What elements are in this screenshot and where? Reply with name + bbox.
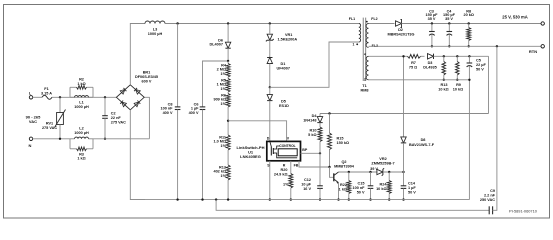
varistor RV1 xyxy=(59,97,61,112)
capacitor C12 xyxy=(319,153,321,185)
inductor L1 with resistor R2 parallel block xyxy=(69,87,71,97)
wire V pin line xyxy=(228,121,287,142)
node R22 top xyxy=(348,171,350,173)
resistor R9 xyxy=(456,55,458,57)
node R15 top xyxy=(328,112,330,114)
svg-text:50 V: 50 V xyxy=(408,191,416,195)
transformer T1 secondary winding xyxy=(366,24,368,48)
capacitor C4 xyxy=(448,22,450,24)
capacitor C6 xyxy=(200,106,206,108)
svg-text:R9: R9 xyxy=(456,83,461,87)
node D8 C14 junction xyxy=(402,171,404,173)
diode D2 xyxy=(396,21,402,26)
transistor Q2 xyxy=(333,173,335,181)
resistor R5 xyxy=(227,77,229,79)
node F1-RV1 junction xyxy=(59,96,61,98)
svg-text:PI-5891-060710: PI-5891-060710 xyxy=(509,209,538,214)
wire R11 to R12 xyxy=(227,150,229,165)
capacitor C5 xyxy=(468,55,470,57)
svg-text:R6: R6 xyxy=(221,93,226,97)
svg-text:VR1: VR1 xyxy=(285,33,292,37)
svg-text:R3: R3 xyxy=(79,152,84,156)
svg-text:275 VAC: 275 VAC xyxy=(111,120,126,124)
svg-text:C5: C5 xyxy=(476,58,481,62)
svg-text:1%: 1% xyxy=(221,174,227,178)
svg-text:22 nF: 22 nF xyxy=(111,116,122,120)
svg-text:BP: BP xyxy=(302,148,308,152)
transformer T1 bias winding xyxy=(366,56,368,80)
svg-text:C8: C8 xyxy=(168,102,173,106)
svg-text:1000 µH: 1000 µH xyxy=(74,105,89,109)
wire fuse to bridge xyxy=(52,96,116,98)
resistor R15 xyxy=(329,114,331,134)
svg-text:400 V: 400 V xyxy=(163,111,173,115)
svg-text:10 kΩ: 10 kΩ xyxy=(438,88,448,92)
svg-text:402 kΩ: 402 kΩ xyxy=(213,170,226,174)
node C3 top xyxy=(431,22,433,24)
capacitor C9 xyxy=(488,206,490,214)
resistor R8 xyxy=(468,22,470,24)
svg-text:909 kΩ: 909 kΩ xyxy=(213,98,226,102)
transformer T1 primary winding xyxy=(359,24,361,43)
svg-text:D: D xyxy=(267,136,270,140)
terminal N xyxy=(29,137,32,140)
capacitor C3 xyxy=(431,24,433,32)
svg-text:UF4007: UF4007 xyxy=(277,67,291,71)
bridge rectifier BR1 xyxy=(116,85,144,110)
svg-text:10 kΩ: 10 kΩ xyxy=(453,88,463,92)
svg-text:20 kΩ: 20 kΩ xyxy=(463,13,473,17)
svg-text:22 µF: 22 µF xyxy=(476,63,486,67)
node RTN down junction xyxy=(496,45,498,47)
fuse F1 xyxy=(42,95,52,99)
node Y-cap tap xyxy=(215,198,217,200)
wire output rail xyxy=(402,23,542,25)
svg-text:1 kΩ: 1 kΩ xyxy=(339,188,347,192)
svg-text:D1: D1 xyxy=(281,62,286,66)
svg-text:1%: 1% xyxy=(283,182,289,186)
svg-text:4: 4 xyxy=(364,52,366,56)
wire FB node to Q2 base xyxy=(330,167,334,177)
wire bridge plus up to top rail xyxy=(130,24,145,85)
svg-text:600 V: 600 V xyxy=(142,79,152,83)
svg-text:1 µF: 1 µF xyxy=(408,186,416,190)
terminal L xyxy=(29,96,32,99)
svg-text:R: R xyxy=(283,164,286,168)
wire C6 branch xyxy=(203,61,229,107)
wire bias right corner down xyxy=(488,56,490,113)
svg-text:150 kΩ: 150 kΩ xyxy=(337,141,350,145)
svg-text:BR1: BR1 xyxy=(143,70,151,74)
wire top rail xyxy=(165,23,359,25)
wire bias supply line xyxy=(320,113,489,115)
wire BP pin xyxy=(301,152,321,154)
svg-text:100 nF: 100 nF xyxy=(352,186,365,190)
svg-text:DF06S-E3/45: DF06S-E3/45 xyxy=(135,75,158,79)
svg-text:R12: R12 xyxy=(219,165,226,169)
svg-text:C9: C9 xyxy=(490,189,495,193)
svg-text:50 V: 50 V xyxy=(357,191,365,195)
wire Y capacitor line xyxy=(216,200,489,211)
svg-text:50 V: 50 V xyxy=(476,67,484,71)
wire bias winding return rail xyxy=(369,79,470,81)
svg-text:1 kΩ: 1 kΩ xyxy=(77,157,85,161)
resistor R7 xyxy=(408,54,421,58)
svg-text:ZMM5259B-7: ZMM5259B-7 xyxy=(371,161,394,165)
svg-text:1%: 1% xyxy=(221,102,227,106)
svg-text:25 V, 530 mA: 25 V, 530 mA xyxy=(502,15,527,20)
svg-text:1.0 MΩ: 1.0 MΩ xyxy=(213,140,226,144)
diode D5 xyxy=(269,87,271,95)
capacitor C2 xyxy=(104,97,106,115)
svg-text:R11: R11 xyxy=(219,135,226,139)
svg-text:R2: R2 xyxy=(79,77,84,81)
node C2 bottom junction xyxy=(104,138,106,140)
svg-text:BAV21WS-7-F: BAV21WS-7-F xyxy=(409,143,435,147)
zener VR2 xyxy=(377,169,383,174)
svg-text:L1: L1 xyxy=(79,101,83,105)
wire R12 to ground rail xyxy=(227,180,229,200)
wire N to L2 block xyxy=(33,138,70,140)
svg-text:RM8: RM8 xyxy=(360,88,368,92)
resistor R6 xyxy=(227,92,229,94)
capacitor C8 xyxy=(177,24,179,107)
wire bridge minus down to ground rail xyxy=(130,110,145,200)
diode D6 xyxy=(227,24,229,43)
wire L to fuse xyxy=(33,96,42,98)
svg-text:C14: C14 xyxy=(408,182,416,186)
wire L2 block to bridge right corner xyxy=(93,138,149,140)
svg-text:FB: FB xyxy=(294,164,299,168)
svg-text:L3: L3 xyxy=(153,28,157,32)
svg-text:R15: R15 xyxy=(337,136,344,140)
svg-text:1 kΩ: 1 kΩ xyxy=(77,82,85,86)
capacitor C14 xyxy=(403,172,405,186)
svg-text:1%: 1% xyxy=(221,144,227,148)
svg-text:VR2: VR2 xyxy=(379,157,386,161)
resistor R22 xyxy=(348,172,350,181)
svg-text:400 V: 400 V xyxy=(189,111,199,115)
resistor R10 xyxy=(318,127,322,142)
svg-text:1.5KE200A: 1.5KE200A xyxy=(278,38,298,42)
svg-text:R24: R24 xyxy=(380,183,388,187)
svg-text:DL4007: DL4007 xyxy=(209,43,223,47)
svg-text:ES1D: ES1D xyxy=(279,104,289,108)
svg-text:1000 µH: 1000 µH xyxy=(148,32,163,36)
resistor R13 xyxy=(443,55,445,57)
svg-text:T1: T1 xyxy=(362,84,366,88)
svg-text:10 µF: 10 µF xyxy=(301,183,311,187)
svg-text:CONTROL: CONTROL xyxy=(279,144,295,148)
node C2 top junction xyxy=(104,96,106,98)
node clamp to drain junction xyxy=(269,86,271,88)
svg-text:R5: R5 xyxy=(221,78,226,82)
svg-text:1: 1 xyxy=(353,42,355,46)
wire primary ground rail xyxy=(130,199,469,201)
svg-text:10 kΩ: 10 kΩ xyxy=(376,187,386,191)
svg-text:2: 2 xyxy=(364,78,366,82)
svg-text:275 VAC: 275 VAC xyxy=(42,126,57,130)
svg-text:RV1: RV1 xyxy=(46,122,53,126)
svg-text:Q2: Q2 xyxy=(341,160,346,164)
diode D3 xyxy=(421,55,425,57)
svg-text:L2: L2 xyxy=(79,126,83,130)
svg-text:D2: D2 xyxy=(398,28,403,32)
node C15 top xyxy=(369,171,371,173)
svg-text:R10: R10 xyxy=(310,128,317,132)
svg-text:RTN: RTN xyxy=(529,49,537,54)
svg-text:N: N xyxy=(29,143,32,148)
svg-text:FL1: FL1 xyxy=(349,17,355,21)
svg-text:VAC: VAC xyxy=(29,119,37,124)
node clamp top xyxy=(269,22,271,24)
svg-text:3.15 A: 3.15 A xyxy=(41,91,52,95)
svg-text:2 MΩ: 2 MΩ xyxy=(217,68,226,72)
terminal RTN xyxy=(541,45,544,48)
svg-text:1N4148: 1N4148 xyxy=(303,119,316,123)
svg-text:1%: 1% xyxy=(221,87,227,91)
wire bias top to corner xyxy=(434,55,489,57)
node R24 top xyxy=(388,171,390,173)
svg-text:DL4935: DL4935 xyxy=(423,66,437,70)
svg-text:R20: R20 xyxy=(281,168,288,172)
op-amp U1 LinkSwitch-PH LNK405EG xyxy=(267,141,301,160)
terminal output plus xyxy=(541,22,544,25)
svg-text:1%: 1% xyxy=(221,72,227,76)
node FB junction xyxy=(328,166,330,168)
svg-text:C6: C6 xyxy=(194,102,199,106)
svg-text:1 MΩ: 1 MΩ xyxy=(217,83,226,87)
capacitor C15 xyxy=(370,172,372,186)
svg-text:39 V: 39 V xyxy=(370,167,378,171)
svg-text:MBRS4201T3G: MBRS4201T3G xyxy=(387,32,414,36)
wire secondary top to D2 xyxy=(369,23,395,25)
svg-text:5 kΩ: 5 kΩ xyxy=(308,133,316,137)
svg-text:MMBT3904: MMBT3904 xyxy=(334,164,355,168)
wire Q2 emitter to ground xyxy=(338,183,340,200)
svg-text:D8: D8 xyxy=(421,138,426,142)
resistor R4 xyxy=(227,61,229,64)
wire Q2 collector rail xyxy=(339,171,378,173)
diode D1 xyxy=(267,58,272,64)
svg-text:16 V: 16 V xyxy=(303,187,311,191)
svg-text:FL2: FL2 xyxy=(371,17,377,21)
node D6 bottom junction xyxy=(227,60,229,62)
svg-text:1 µF: 1 µF xyxy=(191,107,199,111)
transformer T1 core xyxy=(362,18,364,81)
node N-RV1 junction xyxy=(59,138,61,140)
svg-text:1000 µH: 1000 µH xyxy=(74,131,89,135)
svg-text:R13: R13 xyxy=(441,83,448,87)
wire clamp to primary pin1 xyxy=(270,42,359,87)
inductor L2 with resistor R3 parallel block xyxy=(69,139,71,149)
svg-text:LNK405EG: LNK405EG xyxy=(240,154,261,159)
wire S pin to ground xyxy=(269,161,271,200)
TVS VR1 xyxy=(269,24,271,34)
node D8 tap xyxy=(402,55,404,57)
svg-text:D6: D6 xyxy=(218,38,223,42)
svg-text:D5: D5 xyxy=(281,100,286,104)
node C8 top xyxy=(176,22,178,24)
diode D8 xyxy=(403,56,405,137)
resistor R24 xyxy=(388,172,390,181)
resistor R20 on R pin xyxy=(290,161,292,174)
node V tap xyxy=(227,120,229,122)
wire FB pin xyxy=(299,161,329,167)
inductor L3 xyxy=(145,21,165,23)
svg-text:250 VAC: 250 VAC xyxy=(480,198,495,202)
svg-text:24.9 kΩ: 24.9 kΩ xyxy=(274,173,288,177)
svg-text:D3: D3 xyxy=(428,61,433,65)
svg-text:75 Ω: 75 Ω xyxy=(409,66,417,70)
svg-text:35 V: 35 V xyxy=(428,17,436,21)
svg-text:C12: C12 xyxy=(304,178,311,182)
wire bias winding top xyxy=(369,55,408,57)
node D6 top xyxy=(227,22,229,24)
svg-text:100 nF: 100 nF xyxy=(160,107,173,111)
svg-text:35 V: 35 V xyxy=(445,17,453,21)
svg-text:2.2 nF: 2.2 nF xyxy=(484,193,496,197)
svg-text:R7: R7 xyxy=(411,61,416,65)
wire RTN rail xyxy=(369,45,542,47)
resistor R11 xyxy=(226,135,230,150)
svg-text:R22: R22 xyxy=(340,183,347,187)
wire bias line left corner to D4 xyxy=(319,114,321,118)
diode D4 xyxy=(317,117,322,123)
resistor R12 xyxy=(226,165,230,180)
svg-text:C15: C15 xyxy=(358,182,365,186)
wire R6 to R11 with V pin tap xyxy=(227,107,229,135)
